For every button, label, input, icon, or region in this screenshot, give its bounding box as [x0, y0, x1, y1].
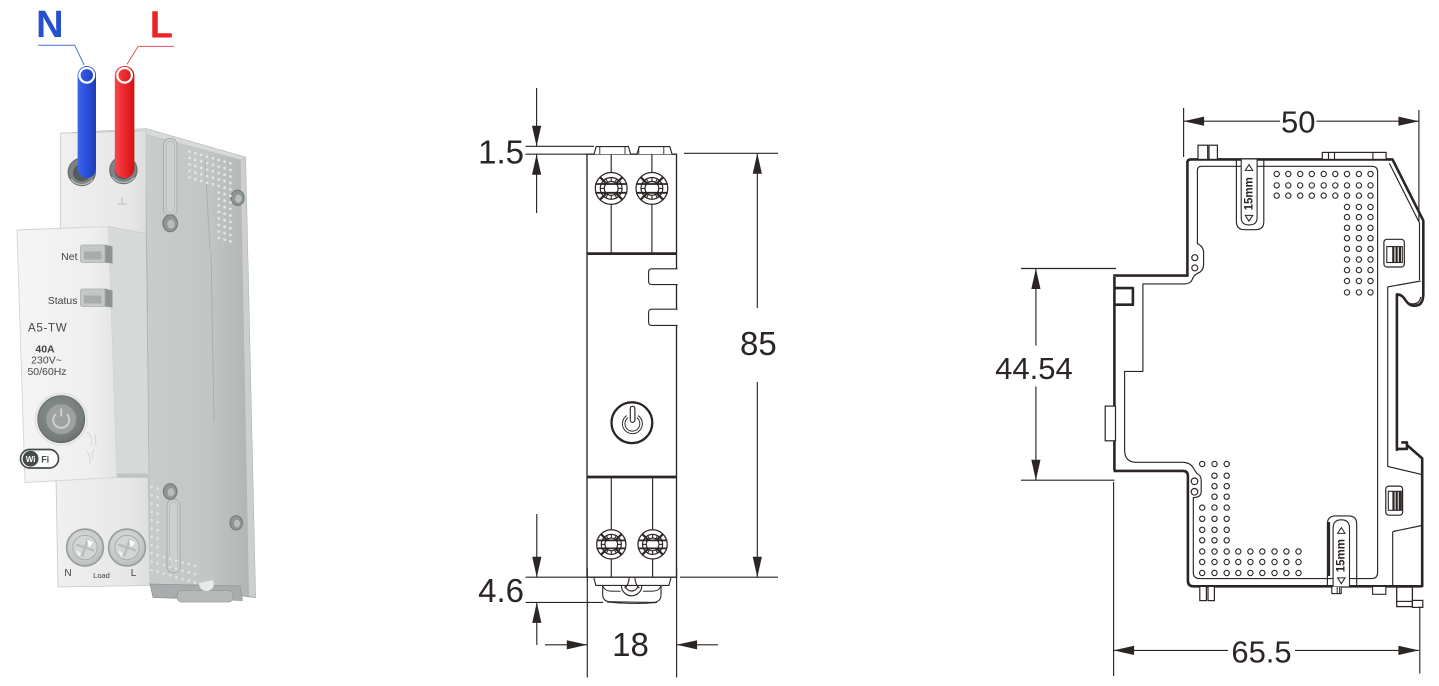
svg-text:Net: Net [61, 251, 77, 263]
top terminal channel line left [610, 154, 612, 172]
lower bump circles [1191, 478, 1198, 485]
inner wall outline [1125, 166, 1378, 578]
bottom terminal screw 2 [109, 529, 146, 566]
dim 18 extension lines [586, 568, 588, 678]
clip U notch [621, 586, 641, 596]
front view top tab right [637, 147, 672, 155]
perforation dots bottom left [1200, 461, 1302, 575]
bottom foot [1397, 587, 1413, 607]
svg-text:15mm: 15mm [1243, 177, 1255, 210]
svg-text:Wi: Wi [26, 455, 36, 464]
dim 85 extension lines [684, 152, 778, 154]
power button symbol arc [624, 417, 641, 433]
svg-text:1.5: 1.5 [478, 134, 524, 171]
dim 65.5 arrows [1114, 646, 1135, 655]
dim 1.5 arrow lines [536, 88, 538, 146]
dim 44.54 arrows [1031, 269, 1040, 290]
top terminal screw left [595, 173, 627, 205]
dim 1.5 arrows [532, 126, 541, 147]
front panel [17, 227, 117, 483]
svg-text:Fi: Fi [41, 454, 49, 464]
dim 65.5 extension lines [1113, 482, 1115, 676]
DIN clip foot [177, 591, 233, 603]
leader line N [38, 45, 84, 65]
dim 1.5 extension lines [526, 145, 595, 147]
upper bump circles [1192, 255, 1198, 261]
bottom terminal channel line right [652, 477, 654, 530]
top tab tick marks [599, 147, 601, 155]
svg-text:65.5: 65.5 [1231, 635, 1291, 670]
side notch upper [649, 269, 678, 285]
svg-text:A5-TW: A5-TW [28, 323, 67, 335]
dim 50 arrows [1184, 117, 1205, 126]
dim 50 line [1184, 120, 1280, 122]
DIN clip notch [199, 580, 214, 591]
dim 18 lines [545, 644, 587, 646]
side notch lower [649, 309, 678, 325]
device side back edge highlight [241, 156, 256, 598]
side mounting hole 4 [230, 516, 242, 530]
power button symbol bar [630, 406, 635, 422]
clip tier 1 [594, 578, 671, 586]
side view wire hook [1397, 294, 1423, 451]
svg-text:85: 85 [740, 325, 777, 362]
svg-text:Load: Load [93, 571, 110, 580]
side view upper step [1113, 274, 1187, 277]
clip body [603, 585, 661, 602]
lower latch [1386, 486, 1403, 515]
15mm slot bottom outer [1327, 516, 1356, 587]
recessed body strip [109, 227, 151, 586]
clip tongue [625, 578, 640, 588]
dim 4.6 arrows [532, 557, 541, 578]
WiFi logo [21, 450, 59, 469]
svg-text:18: 18 [612, 626, 649, 663]
svg-text:50: 50 [1281, 104, 1315, 139]
svg-text:44.54: 44.54 [995, 351, 1073, 386]
hook inner arc [1400, 296, 1421, 304]
terminal hole L [110, 156, 137, 183]
svg-text:N: N [64, 568, 71, 579]
top tab pair [1198, 145, 1208, 159]
Net LED block [105, 245, 113, 264]
lower terminal block shadow [56, 474, 148, 479]
DIN clip tab [1105, 406, 1115, 441]
inner diagonal top right [1389, 163, 1419, 280]
lower divider line [587, 476, 677, 479]
top wide tab [1322, 152, 1386, 159]
dim 85 line [756, 153, 758, 308]
15mm slot bottom edge shade [1328, 522, 1330, 576]
side 15mm slot lower [167, 500, 180, 573]
dim 85 arrows [753, 153, 762, 174]
dim 44.54 extension lines [1021, 268, 1116, 270]
bottom small tab left [1332, 586, 1341, 593]
svg-text:N: N [36, 4, 63, 46]
lower terminal block [56, 478, 150, 588]
dim 4.6 arrow lines [536, 514, 538, 577]
terminal hole N [68, 158, 95, 185]
bottom tab pair [1200, 586, 1207, 600]
power button ring [612, 402, 653, 443]
wire L ring terminal [117, 68, 132, 83]
bottom terminal screw 1 [67, 529, 104, 566]
side mounting hole 3 [163, 484, 177, 500]
15mm slot top triangles [1245, 165, 1252, 171]
perforation dots top right [1274, 171, 1373, 295]
bottom terminal channel line left [610, 477, 612, 530]
lower chamfer inner lines [1393, 526, 1422, 586]
svg-text:L: L [150, 5, 173, 47]
15mm slot bottom triangles [1338, 528, 1345, 534]
leader line L [127, 46, 174, 64]
power button [38, 396, 85, 443]
power button icon [53, 414, 69, 428]
svg-text:4.6: 4.6 [478, 572, 524, 609]
upper divider line [587, 252, 677, 255]
side mounting hole 1 [163, 215, 178, 232]
svg-text:Status: Status [48, 295, 78, 307]
clip shoulders [603, 586, 661, 592]
panel seam marks [87, 432, 96, 464]
svg-text:50/60Hz: 50/60Hz [27, 366, 66, 378]
power button recess [35, 393, 87, 445]
dim 44.54 line [1035, 269, 1037, 346]
bottom small tab right [1373, 586, 1386, 594]
bottom terminal screw right [638, 530, 667, 559]
bottom terminal screw left [597, 530, 626, 559]
side 15mm slot upper [164, 139, 178, 216]
side perforation dots lower [150, 486, 196, 584]
side mounting hole 2 [231, 190, 244, 205]
Status LED block [105, 289, 113, 308]
top terminal screw right [636, 173, 668, 205]
front view top tab left [594, 147, 631, 155]
upper latch [1384, 239, 1404, 267]
dim 18 arrows [567, 640, 588, 649]
svg-text:L: L [131, 568, 137, 579]
device side face [146, 129, 256, 598]
side view lower right wall [1407, 445, 1422, 587]
recess inner lines [1388, 281, 1422, 475]
dim 65.5 line [1114, 649, 1228, 651]
top terminal channel line right [651, 154, 653, 172]
dim 4.6 extension lines [526, 576, 588, 578]
wire N ring terminal [80, 68, 95, 83]
15mm slot bottom pill [1333, 520, 1349, 587]
engraved mark on terminal block [117, 197, 127, 205]
device top face sliver [61, 129, 246, 160]
dim 50 extension lines [1183, 108, 1185, 157]
side view left wall [1113, 277, 1116, 470]
DIN clip band [150, 584, 243, 601]
side view latch tooth [1397, 442, 1407, 449]
front view body outline [587, 154, 677, 577]
svg-text:15mm: 15mm [1336, 539, 1348, 572]
side view lower left step and bottom [1114, 471, 1423, 586]
side perforation dots upper [188, 150, 232, 243]
side moulding seam [205, 160, 214, 420]
upper terminal block [61, 131, 147, 237]
side view left notch [1114, 288, 1133, 305]
side view top and right upper wall [1187, 159, 1423, 294]
svg-text:230V~: 230V~ [31, 355, 62, 367]
15mm slot top outer [1236, 160, 1263, 230]
15mm slot top pill [1241, 160, 1257, 225]
wire N (blue) [78, 66, 96, 178]
clip bottom contour [607, 602, 657, 604]
wire L (red) [115, 66, 135, 178]
